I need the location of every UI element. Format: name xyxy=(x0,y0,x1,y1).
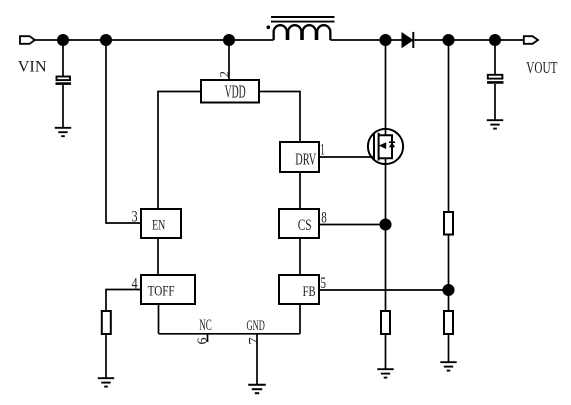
wire: DRV to CS bus xyxy=(299,172,301,209)
wire: R3 to FB node xyxy=(448,235,450,312)
wire: R4 to ground xyxy=(448,334,450,362)
wire top rail: diode to VOUT terminal xyxy=(414,39,524,41)
svg-text:TOFF: TOFF xyxy=(148,284,175,300)
wire: cap C1 top lead xyxy=(62,40,64,76)
node: VIN cap junction xyxy=(58,35,68,45)
svg-text:VIN: VIN xyxy=(18,57,47,76)
wire: divider top lead xyxy=(448,40,450,212)
pin-box TOFF xyxy=(141,275,195,304)
wire: R2 to ground xyxy=(385,334,387,369)
capacitor C1 (input) xyxy=(56,77,72,84)
pin-box EN xyxy=(141,209,181,238)
svg-text:VOUT: VOUT xyxy=(526,58,557,77)
resistor R4 (divider lower) xyxy=(444,311,453,334)
node: CS sense junction xyxy=(380,219,390,229)
svg-text:FB: FB xyxy=(303,284,316,300)
wire top rail: inductor to diode xyxy=(330,39,402,41)
svg-text:6: 6 xyxy=(195,338,210,345)
wire: CS to FB bus xyxy=(299,238,301,275)
wire: VDD pin 2 lead xyxy=(228,40,230,80)
inductor L1 xyxy=(267,17,335,40)
wire: cap C1 bottom lead xyxy=(62,85,64,127)
node: output cap junction xyxy=(490,35,500,45)
transistor Q1 (NMOS) xyxy=(368,129,403,164)
svg-text:3: 3 xyxy=(132,209,138,226)
wire: CS pin 8 to sense node xyxy=(319,224,386,226)
svg-text:1: 1 xyxy=(320,142,325,159)
pin-box CS xyxy=(279,209,319,238)
svg-text:EN: EN xyxy=(152,217,166,233)
ground (R2) xyxy=(377,369,393,377)
ground (input cap) xyxy=(55,128,71,136)
wire: DRV pin 1 to MOSFET gate xyxy=(319,156,374,158)
wire: EN feed from top rail down xyxy=(106,40,141,223)
svg-text:GND: GND xyxy=(247,318,265,334)
port VIN terminal xyxy=(20,36,35,44)
resistor R1 (TOFF) xyxy=(102,311,111,334)
wire: MOSFET source to sense resistor xyxy=(385,158,387,311)
node: MOSFET drain junction xyxy=(380,35,390,45)
wire: MOSFET drain to top rail xyxy=(385,40,387,135)
port VOUT terminal xyxy=(524,36,538,44)
capacitor C2 (output) xyxy=(487,75,504,83)
wire: output cap bottom lead xyxy=(494,84,496,120)
wire: IC bottom rail (NC / GND) xyxy=(159,333,301,335)
ground (R4) xyxy=(440,362,456,370)
pin stub NC xyxy=(207,334,209,342)
wire: output cap top lead xyxy=(494,40,496,75)
node: FB divider junction xyxy=(443,285,453,295)
wire: VDD right to DRV bus xyxy=(259,92,300,143)
wire: TOFF pin 4 to resistor R1 xyxy=(106,290,141,312)
svg-text:CS: CS xyxy=(298,217,312,234)
svg-text:DRV: DRV xyxy=(295,150,316,169)
pin-box VDD xyxy=(201,80,259,103)
node: EN feed junction xyxy=(101,35,111,45)
ground (IC GND) xyxy=(248,385,266,393)
diode D1 xyxy=(402,32,413,48)
node: feedback divider junction xyxy=(443,35,453,45)
wire: FB bottom to rail xyxy=(299,304,301,334)
ground (R1) xyxy=(98,378,114,386)
resistor R2 (current sense) xyxy=(381,311,390,334)
ground (output cap) xyxy=(487,120,503,128)
wire: FB pin 5 to divider xyxy=(319,289,449,291)
node: VDD pin junction xyxy=(224,35,234,45)
svg-text:7: 7 xyxy=(247,338,262,345)
wire: VDD left to EN bus xyxy=(158,92,201,210)
svg-text:2: 2 xyxy=(217,71,232,78)
wire top rail: VIN terminal to inductor xyxy=(35,39,274,41)
wire: EN to TOFF bus xyxy=(157,238,159,275)
svg-text:NC: NC xyxy=(199,317,212,334)
wire: GND pin 7 to ground xyxy=(256,334,258,384)
wire: R1 to ground xyxy=(105,334,107,378)
pin-box DRV xyxy=(280,142,319,172)
pin-box FB xyxy=(279,275,319,304)
wire: TOFF bottom to rail xyxy=(158,304,160,334)
svg-text:VDD: VDD xyxy=(225,82,246,102)
resistor R3 (divider upper) xyxy=(444,212,453,235)
